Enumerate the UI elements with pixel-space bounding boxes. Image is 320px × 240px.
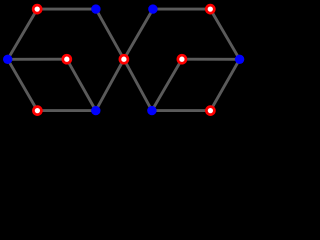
wire B2-A2 <box>153 8 210 11</box>
node A1 (red, top-left) <box>33 5 41 13</box>
wire F2-G2 <box>182 58 240 61</box>
wire F2-A2 <box>210 9 239 59</box>
node E2 (red, bottom-right) <box>206 107 214 115</box>
wire C-D1 <box>96 59 124 110</box>
node A2 (red, top-right) <box>206 5 214 13</box>
wire A1-B1 <box>37 8 96 11</box>
wire F1-G1 <box>8 58 67 61</box>
wire D2-E2 <box>152 109 211 112</box>
node G1 (red, inner left) <box>63 55 71 63</box>
node E1 (red, bottom-left) <box>33 107 41 115</box>
node F1 (blue, far left) <box>3 55 12 64</box>
wire G2-D2 <box>152 59 182 110</box>
node G2 (red, inner right) <box>178 55 186 63</box>
wire D1-E1 <box>37 109 95 112</box>
wire B2-C <box>124 9 153 59</box>
node F2 (blue, far right) <box>235 55 244 64</box>
node B2 (blue, top mid-right) <box>148 4 157 13</box>
wire F1-A1 <box>8 9 38 59</box>
node D2 (blue, bottom mid-right) <box>147 106 156 115</box>
wire E2-F2 <box>210 59 239 110</box>
node C (red, center) <box>120 55 128 63</box>
wire G1-D1 <box>67 59 96 110</box>
node B1 (blue, top mid-left) <box>91 4 100 13</box>
node D1 (blue, bottom mid-left) <box>91 106 100 115</box>
wire E1-F1 <box>8 59 38 110</box>
wire B1-C <box>96 9 124 59</box>
wire C-D2 <box>124 59 152 110</box>
